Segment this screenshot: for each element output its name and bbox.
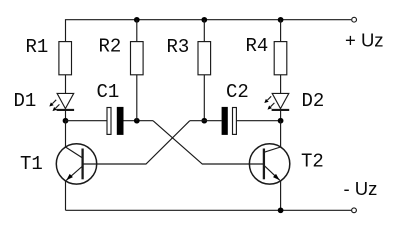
- wire cross coupling C2-node to T1 base: [83, 121, 190, 164]
- wire D1 to collector node: [65, 110, 67, 121]
- svg-text:D1: D1: [14, 90, 37, 112]
- svg-text:- Uz: - Uz: [344, 178, 378, 199]
- wire C1 to R2 node: [124, 120, 154, 122]
- node T2 emitter junction: [278, 207, 284, 213]
- svg-text:R3: R3: [167, 36, 190, 58]
- svg-text:C1: C1: [97, 81, 120, 103]
- transistor T2: [249, 121, 289, 211]
- wire top rail +Uz: [66, 20, 352, 42]
- svg-text:T2: T2: [301, 151, 324, 173]
- capacitor C2: [222, 107, 237, 135]
- transistor T1: [56, 121, 96, 211]
- wire D2 to collector node: [280, 110, 282, 121]
- wire R2 to C1 node: [136, 75, 138, 121]
- terminal +Uz: [352, 17, 357, 22]
- LED D1: [49, 93, 74, 111]
- capacitor C1: [107, 107, 124, 135]
- resistor R2: [131, 42, 144, 75]
- node C2-R3 junction: [201, 118, 207, 124]
- wire R3 top stub: [203, 20, 205, 42]
- node R2 top junction: [134, 17, 140, 23]
- wire R4 to D2: [280, 75, 282, 94]
- svg-text:T1: T1: [20, 153, 43, 175]
- wire cross coupling C1-node to T2 base: [153, 121, 264, 164]
- svg-text:D2: D2: [302, 90, 325, 112]
- node C1-R2 junction: [134, 118, 140, 124]
- wire C2 to D2 node: [237, 120, 281, 122]
- resistor R1: [59, 42, 72, 75]
- node R3 top junction: [201, 17, 207, 23]
- svg-text:C2: C2: [226, 81, 249, 103]
- node T1 collector junction: [63, 118, 69, 124]
- wire R3 node to C2: [190, 120, 222, 122]
- svg-text:R2: R2: [99, 36, 122, 58]
- wire bottom rail -Uz: [66, 209, 352, 211]
- wire R1 to D1: [65, 75, 67, 94]
- wire R3 to C2 node: [203, 75, 205, 121]
- wire node to C1: [66, 120, 108, 122]
- resistor R3: [198, 42, 211, 75]
- svg-text:R1: R1: [26, 36, 49, 58]
- wire R4 top stub: [280, 20, 282, 42]
- svg-text:+ Uz: + Uz: [345, 30, 384, 51]
- svg-text:R4: R4: [246, 35, 269, 57]
- node T2 collector junction: [278, 118, 284, 124]
- LED D2: [264, 93, 289, 110]
- wire R2 top stub: [136, 20, 138, 42]
- node R4 top junction: [278, 17, 284, 23]
- terminal -Uz: [352, 208, 357, 213]
- resistor R4: [274, 42, 287, 75]
